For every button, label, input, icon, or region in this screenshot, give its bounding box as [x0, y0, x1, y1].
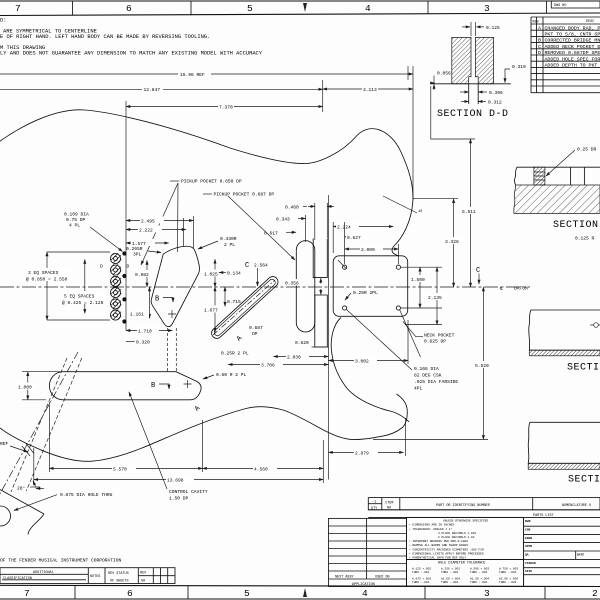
- svg-text:ENGR: ENGR: [525, 537, 532, 540]
- 0.265R 3PL note: [126, 246, 161, 258]
- zone ticks bottom: [75, 585, 545, 599]
- svg-text:@ 0.425 = 2.125: @ 0.425 = 2.125: [62, 300, 104, 306]
- svg-text:0.310: 0.310: [512, 64, 526, 70]
- svg-text:0.056: 0.056: [437, 71, 451, 77]
- string ferrule symbols: [111, 253, 122, 320]
- svg-text:5: 5: [247, 3, 253, 14]
- svg-text:0.715: 0.715: [227, 299, 241, 305]
- svg-text:7: 7: [24, 588, 30, 599]
- svg-text:B: B: [538, 38, 541, 44]
- signature rows right: [524, 517, 600, 586]
- svg-text:5: 5: [244, 588, 250, 599]
- svg-text:0.265R: 0.265R: [126, 246, 143, 252]
- right section C-C (top): [514, 147, 600, 242]
- 0.25R 2PL pocket note: [345, 290, 378, 300]
- svg-text:PKT TO 5/8, CNTR SPC: PKT TO 5/8, CNTR SPC: [545, 32, 600, 38]
- pickup cavity wire channel dashed: [167, 328, 169, 372]
- control cavity: [49, 372, 201, 400]
- dim 4.560: [203, 465, 324, 473]
- svg-text:4.560: 4.560: [254, 467, 268, 473]
- dim 0.134: [219, 271, 241, 277]
- eq spaces texts: [26, 268, 107, 306]
- svg-text:CONTROL CAVITY: CONTROL CAVITY: [169, 489, 208, 495]
- svg-text:ADDED NECK POCKET DT: ADDED NECK POCKET DT: [545, 44, 600, 50]
- svg-text:REV: REV: [140, 571, 147, 575]
- tolerance notes box: [407, 517, 524, 559]
- dim 2.000: [345, 245, 399, 253]
- SECTION D-D detail: [430, 22, 526, 120]
- right section A-A (bottom): [528, 422, 600, 485]
- svg-text:3.328: 3.328: [445, 239, 459, 245]
- dim 0.617: [264, 230, 296, 236]
- svg-text:3.002: 3.002: [355, 359, 369, 365]
- extension x430.8 to 5.511: [431, 86, 475, 139]
- ext to 5.520: [373, 438, 488, 440]
- svg-text:4: 4: [362, 588, 368, 599]
- svg-text:NOTES: NOTES: [90, 575, 100, 579]
- slanted string slot: [209, 274, 280, 340]
- svg-text:4: 4: [365, 3, 371, 14]
- dim 2.030: [274, 353, 329, 361]
- dim 0.982: [134, 261, 153, 288]
- svg-text:1.000: 1.000: [18, 385, 32, 391]
- 0.109 holes dots: [122, 251, 126, 323]
- svg-text:2.564: 2.564: [254, 263, 268, 269]
- svg-text:CLASSIFICATION: CLASSIFICATION: [3, 577, 32, 581]
- svg-text:DWN: DWN: [525, 520, 531, 523]
- sheet top edge: [0, 0, 600, 2]
- screws leader lines: [347, 310, 413, 371]
- svg-text:SECTION: SECTION: [553, 220, 599, 231]
- svg-text:0.125: 0.125: [486, 25, 500, 31]
- svg-text:2.495: 2.495: [141, 219, 155, 225]
- neck pocket note: [403, 322, 455, 345]
- svg-text:4PL: 4PL: [414, 386, 423, 392]
- svg-text:ADDED DEPTH TO PKT: ADDED DEPTH TO PKT: [545, 63, 598, 69]
- dim 1.710: [126, 327, 172, 335]
- neck angle dashed lines: [0, 352, 82, 501]
- 0.25R 2 PL bridge note: [221, 351, 249, 357]
- svg-text:5 EQ SPACES: 5 EQ SPACES: [64, 294, 95, 300]
- svg-text:NO: NO: [387, 507, 391, 511]
- svg-text:QA: QA: [525, 553, 529, 556]
- svg-text:2.224: 2.224: [337, 225, 351, 231]
- dim 0.460: [285, 204, 334, 210]
- svg-text:0.125 R: 0.125 R: [575, 236, 595, 242]
- svg-text:1.50 DP: 1.50 DP: [169, 496, 189, 502]
- extension line left datum x126: [125, 101, 127, 331]
- guitar body outline top: [0, 110, 413, 256]
- ext lines bridge top: [305, 215, 307, 242]
- top center arrow: [303, 3, 307, 12]
- svg-text:DWG NO: DWG NO: [554, 4, 566, 8]
- svg-text:0.25R 2 PL: 0.25R 2 PL: [221, 351, 249, 357]
- svg-text:10: 10: [418, 210, 422, 214]
- dim 2.135: [427, 267, 447, 324]
- svg-text:12.847: 12.847: [144, 87, 161, 93]
- svg-text:1.710: 1.710: [138, 329, 152, 335]
- svg-text:15.96 REF: 15.96 REF: [180, 72, 205, 78]
- 0.50 R 2 PL note: [203, 372, 247, 379]
- svg-text:3: 3: [484, 588, 490, 599]
- svg-text:THRU -.001: THRU -.001: [470, 571, 488, 574]
- parts list row: [368, 509, 600, 511]
- dim 1.577: [126, 239, 169, 247]
- svg-text:DESC: DESC: [586, 20, 594, 24]
- svg-text:THRU -.001: THRU -.001: [412, 581, 430, 584]
- dim 3.113: [323, 87, 413, 93]
- svg-text:2: 2: [592, 588, 598, 599]
- svg-text:5.511: 5.511: [462, 209, 476, 215]
- dim 2.495: [126, 217, 193, 225]
- svg-text:0.75 DP: 0.75 DP: [66, 217, 86, 223]
- svg-text:2.000: 2.000: [361, 247, 375, 253]
- datum CL symbol: [499, 285, 528, 292]
- svg-text:NEXT ASSY: NEXT ASSY: [335, 576, 354, 580]
- revision table: [531, 17, 600, 93]
- sheet bottom edge: [0, 598, 600, 600]
- svg-text:THRU -.001: THRU -.001: [441, 571, 459, 574]
- bottom center arrow: [303, 588, 307, 597]
- neck pocket: [333, 256, 408, 316]
- application block left: [329, 518, 407, 586]
- svg-text:0.430R: 0.430R: [220, 236, 237, 242]
- svg-text:B: B: [151, 382, 155, 390]
- svg-text:• CONCENTRICITY MACHINED DIAME: • CONCENTRICITY MACHINED DIAMETERS .005 …: [409, 548, 484, 551]
- pickup pocket labels: [141, 179, 295, 266]
- extension line x322.7: [322, 80, 324, 112]
- svg-text:-1: -1: [372, 501, 376, 505]
- svg-text:E OF RIGHT HAND. LEFT HAND BOD: E OF RIGHT HAND. LEFT HAND BODY CAN BE M…: [0, 34, 210, 40]
- dim 0.620: [295, 340, 328, 347]
- svg-text:REV: REV: [533, 20, 540, 24]
- svg-text:2.135: 2.135: [428, 295, 442, 301]
- svg-text:3 EQ SPACES: 3 EQ SPACES: [28, 270, 59, 276]
- svg-text:CHK: CHK: [525, 529, 531, 532]
- svg-text:0.312: 0.312: [488, 100, 502, 106]
- svg-text:2.030: 2.030: [287, 355, 301, 361]
- dim 0.320: [126, 340, 150, 346]
- 0.687 DP note: [249, 325, 263, 337]
- svg-text:C: C: [476, 267, 480, 275]
- svg-text:1.025: 1.025: [204, 272, 218, 278]
- dim 15.96 REF: [0, 72, 413, 78]
- notes text top-left: [0, 18, 263, 57]
- svg-text:PICKUP POCKET 0.850 DP: PICKUP POCKET 0.850 DP: [181, 179, 242, 185]
- hole tolerance box: [407, 560, 524, 587]
- eq spaces dim lines: [46, 252, 48, 320]
- dim 0.356: [285, 278, 321, 294]
- svg-text:DATUM: DATUM: [514, 285, 528, 291]
- svg-text:3.113: 3.113: [363, 87, 377, 93]
- svg-text:7.370: 7.370: [219, 104, 233, 110]
- svg-text:3 PLACE DECIMALS ±.010: 3 PLACE DECIMALS ±.010: [438, 532, 476, 535]
- svg-text:B: B: [155, 296, 159, 304]
- control cavity note: [129, 392, 208, 502]
- svg-text:0.320: 0.320: [136, 340, 150, 346]
- dim 7.370: [126, 104, 323, 110]
- svg-text:C: C: [538, 44, 541, 50]
- 0.875 DIA note: [14, 492, 113, 511]
- svg-text:3.706: 3.706: [261, 363, 275, 369]
- dim 5.520: [474, 287, 494, 439]
- hatched block: [452, 37, 471, 83]
- control cavity cross: [184, 380, 192, 388]
- svg-text:ISSUED: ISSUED: [525, 562, 536, 565]
- dim 1.500: [410, 267, 430, 308]
- svg-text:0.343: 0.343: [276, 217, 290, 223]
- svg-text:ADDITIONAL: ADDITIONAL: [33, 571, 54, 575]
- section C flag left: [245, 262, 268, 286]
- svg-text:4 PL: 4 PL: [69, 223, 80, 229]
- 28 deg note: [17, 481, 40, 492]
- svg-text:• PARENTHETICAL INFO FOR REF O: • PARENTHETICAL INFO FOR REF ONLY: [409, 557, 467, 560]
- extension line x408: [407, 66, 409, 80]
- dim 2.224: [333, 223, 393, 231]
- dim 0.125 top: [470, 22, 472, 36]
- svg-text:3: 3: [484, 3, 490, 14]
- svg-text:QTY: QTY: [371, 507, 377, 511]
- svg-text:CHANGED BODY RAD, PKT: CHANGED BODY RAD, PKT: [545, 25, 600, 31]
- first row: [368, 498, 600, 510]
- svg-text:D: D: [100, 264, 103, 270]
- svg-text:0.356: 0.356: [285, 281, 299, 287]
- svg-text:82 DEG CSK: 82 DEG CSK: [414, 373, 442, 379]
- svg-text:1.161: 1.161: [130, 312, 144, 318]
- svg-text:0.687: 0.687: [249, 325, 263, 331]
- dim 5.511: [461, 139, 481, 287]
- svg-text:0.109 DIA: 0.109 DIA: [64, 212, 89, 218]
- dim 3.328: [444, 199, 464, 287]
- 0.109 DIA note: [64, 212, 123, 252]
- neck screw holes: [343, 265, 401, 310]
- dim 3.002: [329, 357, 409, 365]
- base line: [430, 83, 511, 85]
- svg-text:CORRECTED BRIDGE MNT: CORRECTED BRIDGE MNT: [545, 38, 600, 44]
- zone strip top line: [0, 13, 600, 16]
- svg-text:SECTI: SECTI: [568, 475, 600, 486]
- svg-text:28°: 28°: [17, 486, 26, 492]
- svg-text:0.166 DIA: 0.166 DIA: [414, 366, 439, 372]
- svg-text:@ 0.850 = 2.550: @ 0.850 = 2.550: [26, 277, 68, 283]
- 1 deg angle line: [383, 196, 422, 214]
- svg-text:2 PL: 2 PL: [224, 242, 235, 248]
- svg-text:D:: D:: [0, 18, 6, 24]
- svg-text:ADDED HOLE SPEC FOR: ADDED HOLE SPEC FOR: [545, 56, 600, 62]
- svg-text:0.50 R 2 PL: 0.50 R 2 PL: [216, 372, 247, 378]
- svg-text:REF: REF: [0, 441, 9, 447]
- svg-text:SECTI: SECTI: [567, 363, 600, 374]
- bridge pickup capsule: [296, 241, 315, 332]
- jack detail bottom-left: [0, 490, 44, 535]
- svg-text:NOMENCLATURE O: NOMENCLATURE O: [562, 504, 591, 508]
- svg-text:0.134: 0.134: [227, 271, 241, 277]
- title block: [329, 498, 600, 587]
- dim 13.698: [34, 476, 324, 484]
- svg-text:0.460: 0.460: [285, 204, 299, 210]
- svg-text:0.396: 0.396: [489, 90, 503, 96]
- svg-text:THRU -.001: THRU -.001: [441, 581, 459, 584]
- dim 1.677: [203, 287, 223, 332]
- svg-text:ITEM: ITEM: [385, 502, 393, 506]
- svg-text:2.879: 2.879: [355, 451, 369, 457]
- svg-text:SIZE: SIZE: [525, 570, 532, 573]
- zone strip bottom line: [0, 585, 600, 586]
- svg-text:THRU -.001: THRU -.001: [499, 571, 517, 574]
- cross mark pickup cavity: [168, 310, 176, 318]
- svg-text:OF SHEETS: OF SHEETS: [110, 579, 129, 583]
- ext lines bottom: [33, 448, 35, 483]
- svg-text:REMOVED 0.687DP SPEC: REMOVED 0.687DP SPEC: [545, 50, 600, 56]
- svg-text:• DIMENSIONAL LIMITS APPLY BEF: • DIMENSIONAL LIMITS APPLY BEFORE PROCES…: [409, 552, 484, 555]
- svg-text:0.625 DP: 0.625 DP: [424, 339, 446, 345]
- svg-text:1.677: 1.677: [204, 308, 218, 314]
- svg-text:THRU -.001: THRU -.001: [412, 571, 430, 574]
- dim 5.570: [49, 465, 202, 473]
- svg-text:PICKUP POCKET 0.687 DP: PICKUP POCKET 0.687 DP: [214, 192, 275, 198]
- dim 1.161: [130, 287, 150, 318]
- svg-text:HOLE DIAMETER TOLERANCE: HOLE DIAMETER TOLERANCE: [438, 562, 485, 566]
- svg-text:THRU -.001: THRU -.001: [470, 581, 488, 584]
- dim 2.222: [126, 226, 186, 234]
- dim 12.847: [0, 87, 323, 93]
- svg-text:OF THE FENDER MUSICAL INSTRUME: OF THE FENDER MUSICAL INSTRUMENT CORPORA…: [0, 558, 122, 564]
- dim 3.706: [228, 361, 328, 369]
- right section B-B (middle): [529, 310, 600, 374]
- dim 1.000: [17, 372, 60, 400]
- svg-text:SH: SH: [141, 579, 145, 583]
- svg-text:C: C: [245, 262, 249, 270]
- svg-text:7: 7: [15, 3, 21, 14]
- svg-text:D: D: [127, 264, 130, 270]
- svg-text:APPD: APPD: [525, 545, 532, 548]
- svg-text:6: 6: [127, 588, 133, 599]
- REF label: [0, 441, 34, 456]
- svg-text:1.500: 1.500: [411, 277, 425, 283]
- svg-text:5.520: 5.520: [475, 363, 489, 369]
- svg-text:DP: DP: [252, 331, 258, 337]
- dim 1.025: [203, 259, 223, 287]
- dim 0.343: [276, 217, 306, 223]
- svg-text:6: 6: [126, 3, 132, 14]
- svg-text:13.698: 13.698: [167, 478, 184, 484]
- lower channel: [468, 84, 470, 104]
- DWG NO box: [551, 1, 600, 8]
- svg-text:0.627: 0.627: [347, 235, 361, 241]
- svg-text:SECTION D-D: SECTION D-D: [437, 109, 509, 120]
- svg-text:• INTERPRET DRAWING PER DOD-D-: • INTERPRET DRAWING PER DOD-D-1000: [409, 540, 468, 543]
- bridge channel upper: [313, 239, 327, 278]
- svg-text:.025 DIA FARSIDE: .025 DIA FARSIDE: [414, 379, 458, 385]
- svg-text:PART OR IDENTIFYING NUMBER: PART OR IDENTIFYING NUMBER: [436, 504, 490, 508]
- ext lines above pocket: [344, 222, 346, 264]
- classification table: [0, 568, 175, 584]
- svg-text:UNLESS OTHERWISE SPECIFIED: UNLESS OTHERWISE SPECIFIED: [443, 520, 488, 523]
- svg-text:USED ON: USED ON: [375, 576, 389, 580]
- svg-text:LY AND DOES NOT GUARANTEE ANY: LY AND DOES NOT GUARANTEE ANY DIMENSION …: [0, 51, 263, 57]
- svg-text:3PL: 3PL: [133, 252, 142, 258]
- body cutaway S-curve: [331, 318, 409, 422]
- centerline datum: [0, 286, 530, 288]
- svg-text:0.617: 0.617: [264, 230, 278, 236]
- body lower horn tip and bottom edge: [0, 394, 407, 461]
- svg-text:• TOLERANCES: ANGLES ± 1°: • TOLERANCES: ANGLES ± 1°: [409, 527, 453, 531]
- dim 2.879: [329, 449, 404, 457]
- svg-text:0.25 DR: 0.25 DR: [577, 147, 597, 153]
- 0.430R 2 PL note: [198, 236, 237, 249]
- svg-text:THRU -.002: THRU -.002: [499, 581, 517, 584]
- B flags: [155, 296, 173, 304]
- ext lines above pickup cavity: [183, 218, 185, 247]
- dim 0.627: [345, 233, 369, 241]
- svg-text:A: A: [538, 25, 541, 31]
- svg-text:PARTS LIST: PARTS LIST: [533, 514, 554, 518]
- svg-text:• REMOVE ALL BURRS AND SHARP E: • REMOVE ALL BURRS AND SHARP EDGES: [409, 544, 468, 547]
- svg-text:D: D: [538, 50, 541, 56]
- svg-text:0.982: 0.982: [135, 272, 149, 278]
- svg-text:NECK POCKET: NECK POCKET: [424, 333, 455, 339]
- svg-text:0.875 DIA HOLE THRU: 0.875 DIA HOLE THRU: [60, 492, 113, 498]
- dim 0.715: [225, 287, 241, 306]
- neck pickup cavity: [151, 246, 199, 326]
- svg-text:5.570: 5.570: [113, 467, 127, 473]
- svg-text:2 PLACE DECIMALS ±.02: 2 PLACE DECIMALS ±.02: [438, 536, 475, 539]
- svg-text:2.222: 2.222: [139, 228, 153, 234]
- svg-text:0.620: 0.620: [295, 340, 309, 346]
- extension line x413 right tangent: [412, 66, 414, 200]
- svg-text:• DIMENSIONS ARE IN INCHES: • DIMENSIONS ARE IN INCHES: [409, 524, 454, 527]
- svg-text:0.25R 2PL: 0.25R 2PL: [353, 290, 378, 296]
- svg-text:REV STATUS: REV STATUS: [108, 572, 129, 576]
- svg-text:DATE: DATE: [577, 553, 584, 556]
- hole spec note: [414, 366, 458, 392]
- bridge channel lower: [315, 295, 328, 347]
- zone ticks top: [73, 1, 547, 16]
